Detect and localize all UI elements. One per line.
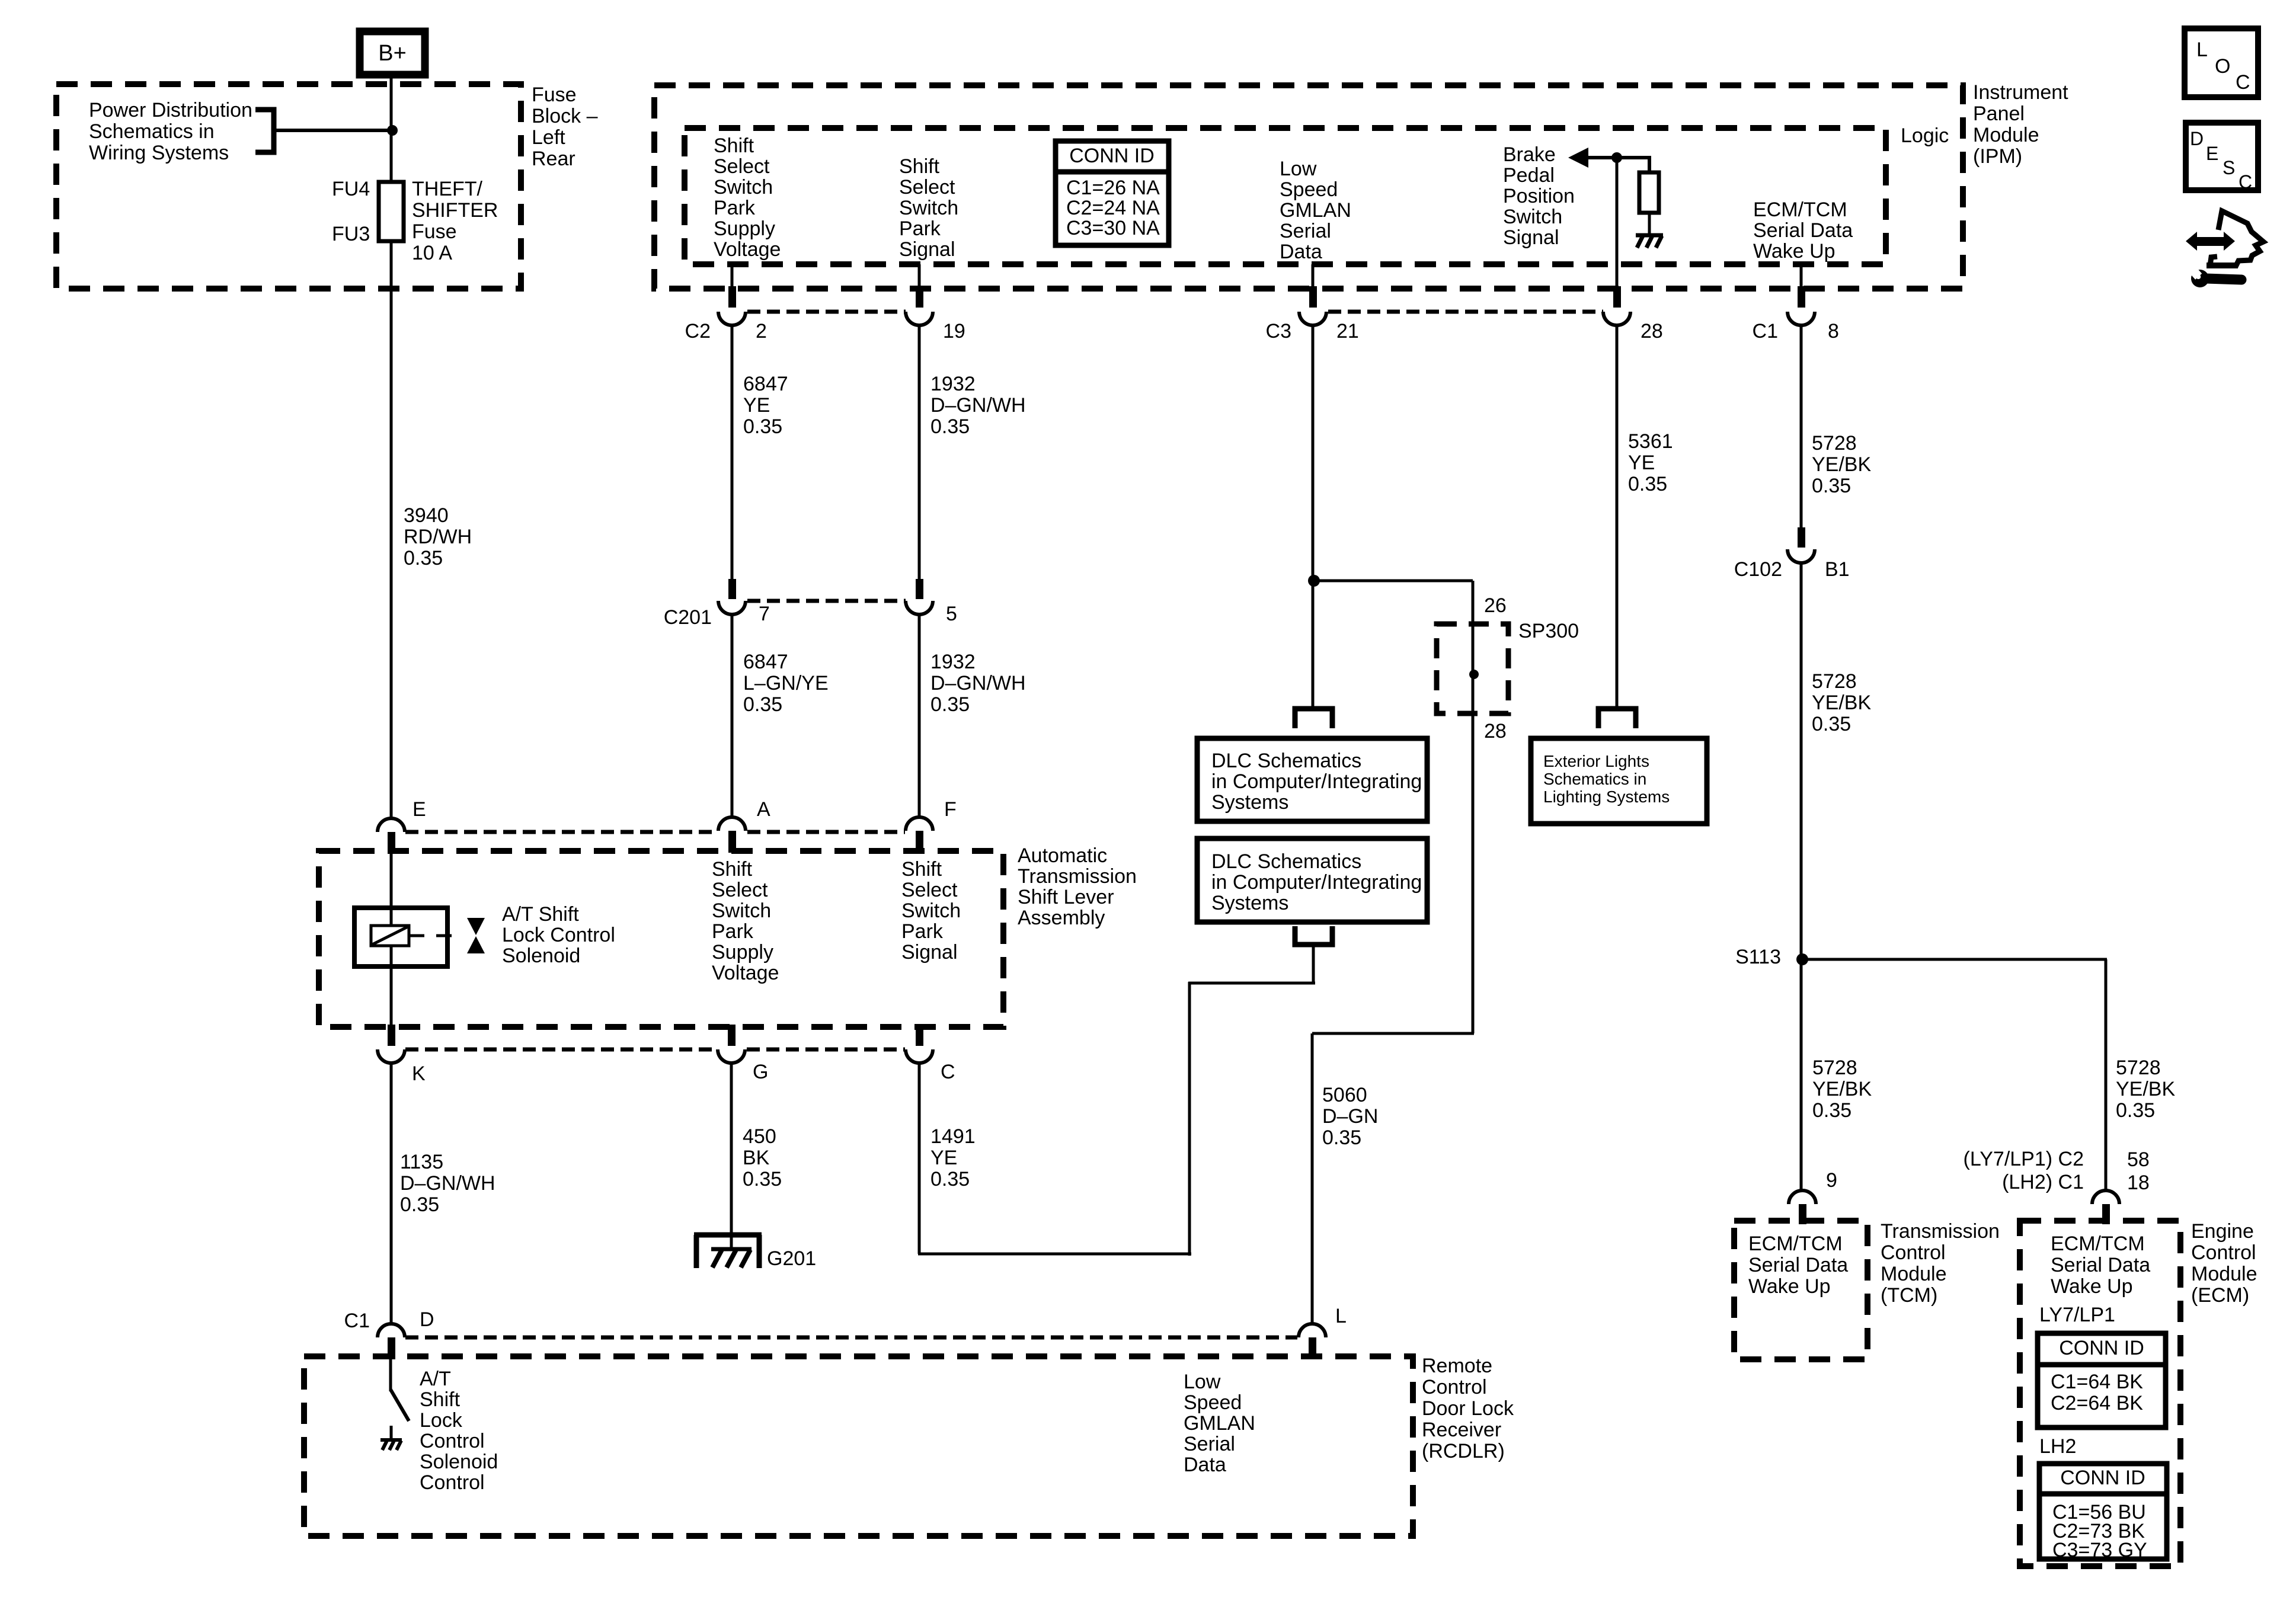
svg-text:C1=56 BUC2=73 BKC3=73 GY: C1=56 BUC2=73 BKC3=73 GY xyxy=(2052,1501,2147,1561)
svg-text:6847YE0.35: 6847YE0.35 xyxy=(743,373,788,438)
connector TCM pin 9 xyxy=(1789,1190,1816,1204)
wire 1932 D-GN/WH upper xyxy=(918,325,921,580)
svg-text:C201: C201 xyxy=(664,606,712,629)
svg-text:G201: G201 xyxy=(767,1247,816,1270)
svg-text:LH2: LH2 xyxy=(2039,1435,2076,1458)
wire 5361 YE from pin 28 xyxy=(1616,325,1619,708)
wire 5060 through SP300 xyxy=(1472,581,1475,1033)
icon data exchange arrow xyxy=(2186,232,2235,251)
svg-text:3940RD/WH0.35: 3940RD/WH0.35 xyxy=(404,504,472,569)
svg-text:InstrumentPanelModule(IPM): InstrumentPanelModule(IPM) xyxy=(1973,81,2068,168)
svg-text:5: 5 xyxy=(946,603,957,625)
svg-text:450BK0.35: 450BK0.35 xyxy=(743,1125,782,1190)
valve symbol of solenoid xyxy=(467,918,485,935)
resistor brake signal pull-up xyxy=(1639,172,1659,213)
wire branch to SP300 xyxy=(1314,580,1473,582)
svg-text:6847L–GN/YE0.35: 6847L–GN/YE0.35 xyxy=(743,651,829,716)
svg-text:A: A xyxy=(757,798,770,821)
wire 1491 YE stub to bracket xyxy=(1312,946,1315,984)
reference box DLC schematics 1 xyxy=(1197,738,1427,821)
svg-text:C2: C2 xyxy=(685,320,711,343)
svg-text:L: L xyxy=(1335,1305,1347,1327)
svg-text:SP300: SP300 xyxy=(1518,620,1579,642)
svg-text:K: K xyxy=(412,1062,426,1085)
svg-text:5728YE/BK0.35: 5728YE/BK0.35 xyxy=(2116,1057,2175,1122)
wire 1135 D-GN/WH xyxy=(390,1063,393,1324)
connector pin E xyxy=(378,818,405,832)
RCDLR connector dashed line D-L xyxy=(405,1336,1297,1340)
connector C1 pin 8 xyxy=(1798,286,1805,308)
wire pin 8 stub xyxy=(1800,264,1803,289)
wire 450 BK xyxy=(730,1063,733,1250)
splice S113 xyxy=(1796,953,1808,965)
connector pin K xyxy=(388,1025,395,1046)
wire switch to internal ground xyxy=(390,1426,393,1439)
svg-text:C1: C1 xyxy=(344,1310,370,1332)
node inside SP300 xyxy=(1469,670,1479,679)
wire pin 2 stub xyxy=(731,264,734,289)
svg-text:(LY7/LP1) C2(LH2) C1: (LY7/LP1) C2(LH2) C1 xyxy=(1964,1148,2084,1193)
svg-text:1491YE0.35: 1491YE0.35 xyxy=(930,1125,976,1190)
wire 5728 YE/BK middle xyxy=(1800,563,1803,1190)
connector C201 dashed line xyxy=(747,599,906,603)
svg-text:C: C xyxy=(941,1061,955,1083)
wire resistor to ground xyxy=(1648,213,1651,234)
svg-text:8: 8 xyxy=(1828,320,1839,343)
transmission control module dashed box xyxy=(1734,1221,1868,1359)
ground internal IPM xyxy=(1636,233,1663,238)
svg-text:ShiftSelectSwitchParkSignal: ShiftSelectSwitchParkSignal xyxy=(901,858,961,964)
svg-text:LowSpeedGMLANSerialData: LowSpeedGMLANSerialData xyxy=(1184,1371,1255,1476)
connector pin A xyxy=(718,817,746,831)
IPM logic inner dashed box xyxy=(685,128,1886,264)
svg-text:ShiftSelectSwitchParkSignal: ShiftSelectSwitchParkSignal xyxy=(899,155,958,261)
ground G201 xyxy=(694,1233,762,1238)
svg-text:9: 9 xyxy=(1826,1169,1837,1192)
svg-text:CONN ID: CONN ID xyxy=(2060,1467,2145,1489)
svg-text:FuseBlock –LeftRear: FuseBlock –LeftRear xyxy=(532,84,598,170)
svg-text:S113: S113 xyxy=(1735,946,1781,968)
svg-text:DLC Schematicsin Computer/Inte: DLC Schematicsin Computer/IntegratingSys… xyxy=(1211,750,1422,814)
bracket for power distribution reference xyxy=(255,110,274,152)
wire 1491 YE to DLC bracket xyxy=(1188,982,1315,985)
wire pin 19 stub xyxy=(918,264,921,289)
svg-text:EngineControlModule(ECM): EngineControlModule(ECM) xyxy=(2191,1220,2257,1307)
svg-text:5728YE/BK0.35: 5728YE/BK0.35 xyxy=(1812,670,1871,735)
CONN ID table LH2 xyxy=(2039,1464,2167,1559)
svg-text:5728YE/BK0.35: 5728YE/BK0.35 xyxy=(1812,432,1871,497)
svg-text:28: 28 xyxy=(1484,720,1507,742)
svg-text:C1=64 BKC2=64 BK: C1=64 BKC2=64 BK xyxy=(2051,1371,2143,1414)
bracket to exterior lights box xyxy=(1598,709,1636,728)
svg-text:O: O xyxy=(2215,55,2230,78)
svg-text:2: 2 xyxy=(756,320,767,343)
wire 6847 YE xyxy=(731,325,734,580)
svg-text:A/TShiftLockControlSolenoidCon: A/TShiftLockControlSolenoidControl xyxy=(420,1368,498,1494)
svg-text:ECM/TCMSerial DataWake Up: ECM/TCMSerial DataWake Up xyxy=(1748,1233,1848,1298)
fuse block - left rear dashed box xyxy=(56,84,521,289)
svg-text:5361YE0.35: 5361YE0.35 xyxy=(1628,430,1673,495)
battery B+ terminal box xyxy=(360,31,425,75)
connector C102 pin B1 xyxy=(1798,527,1805,548)
wire 6847 L-GN/YE xyxy=(731,614,734,817)
CONN ID table LY7/LP1 xyxy=(2038,1333,2166,1427)
svg-text:ECM/TCMSerial DataWake Up: ECM/TCMSerial DataWake Up xyxy=(2051,1233,2150,1298)
svg-text:CONN ID: CONN ID xyxy=(2059,1337,2144,1359)
connector pin G xyxy=(728,1025,736,1046)
svg-text:C: C xyxy=(2239,171,2252,193)
splice pack SP300 dashed box xyxy=(1437,624,1508,713)
ground internal RCDLR xyxy=(380,1438,402,1442)
svg-text:C3: C3 xyxy=(1266,320,1291,343)
connector pin F xyxy=(906,817,933,831)
connector C3 pin 28 xyxy=(1613,286,1621,308)
icon DESC box xyxy=(2186,123,2258,190)
bracket to DLC schematics box 1 xyxy=(1295,709,1332,728)
svg-text:FU3: FU3 xyxy=(332,223,370,245)
wire 1932 D-GN/WH lower xyxy=(918,614,921,817)
wire 1491 YE up xyxy=(1188,982,1191,1256)
svg-text:G: G xyxy=(753,1061,768,1083)
connector C201 pin 7 xyxy=(728,579,736,599)
icon LOC box xyxy=(2185,28,2258,97)
shifter lower connector dashed line K-G xyxy=(405,1048,717,1052)
wire B+ to fuse xyxy=(390,73,393,183)
wire 5060 D-GN from pin 21 xyxy=(1312,325,1315,708)
svg-text:L: L xyxy=(2196,39,2208,61)
connector C2 dashed line xyxy=(747,310,906,314)
wire brake signal internal xyxy=(1586,156,1651,159)
wire to pull-up resistor xyxy=(1648,158,1651,174)
node splice to SP300 xyxy=(1308,575,1320,587)
wire pin 21 stub xyxy=(1312,264,1315,289)
fuse THEFT/SHIFTER 10A xyxy=(379,182,404,241)
svg-text:FU4: FU4 xyxy=(332,178,370,200)
svg-text:A/T ShiftLock ControlSolenoid: A/T ShiftLock ControlSolenoid xyxy=(502,903,615,967)
bracket below DLC schematics box 2 xyxy=(1295,926,1332,945)
svg-text:AutomaticTransmissionShift Lev: AutomaticTransmissionShift LeverAssembly xyxy=(1018,844,1137,929)
svg-text:7: 7 xyxy=(759,603,770,625)
svg-text:E: E xyxy=(2206,143,2218,164)
svg-text:S: S xyxy=(2223,157,2235,178)
wire brake signal to pin 28 xyxy=(1616,158,1619,290)
wire 5728 YE/BK upper xyxy=(1800,325,1803,529)
svg-text:5728YE/BK0.35: 5728YE/BK0.35 xyxy=(1812,1057,1872,1122)
svg-text:5060D–GN0.35: 5060D–GN0.35 xyxy=(1322,1084,1378,1149)
svg-text:Logic: Logic xyxy=(1901,124,1949,147)
svg-text:C: C xyxy=(2236,71,2250,94)
svg-text:CONN ID: CONN ID xyxy=(1069,145,1155,167)
svg-text:21: 21 xyxy=(1336,320,1359,343)
engine control module dashed box xyxy=(2020,1221,2180,1566)
svg-text:DLC Schematicsin Computer/Inte: DLC Schematicsin Computer/IntegratingSys… xyxy=(1211,850,1422,914)
wire 5060 D-GN down to L xyxy=(1311,1033,1314,1324)
connector C3 dashed line xyxy=(1328,310,1603,314)
icon wrench xyxy=(2183,261,2212,292)
reference box exterior lights schematics xyxy=(1531,738,1707,824)
wire power distribution branch xyxy=(274,129,391,132)
svg-text:19: 19 xyxy=(943,320,965,343)
connector C3 pin 21 xyxy=(1309,286,1317,308)
svg-text:28: 28 xyxy=(1641,320,1663,343)
wire S113 branch horizontal xyxy=(1802,958,2107,961)
connector pin L xyxy=(1299,1324,1326,1337)
svg-text:26: 26 xyxy=(1484,594,1507,617)
svg-text:ShiftSelectSwitchParkSupplyVol: ShiftSelectSwitchParkSupplyVoltage xyxy=(714,135,781,261)
reference box DLC schematics 2 xyxy=(1197,838,1427,922)
svg-text:1932D–GN/WH0.35: 1932D–GN/WH0.35 xyxy=(930,651,1026,716)
wire 1491 YE horizontal xyxy=(918,1253,1191,1256)
svg-text:TransmissionControlModule(TCM): TransmissionControlModule(TCM) xyxy=(1881,1220,2000,1307)
svg-text:C1=26 NAC2=24 NAC3=30 NA: C1=26 NAC2=24 NAC3=30 NA xyxy=(1066,177,1160,239)
svg-text:1932D–GN/WH0.35: 1932D–GN/WH0.35 xyxy=(930,373,1026,438)
switch solenoid driver xyxy=(391,1390,409,1421)
wire 5060 horizontal to RCDLR xyxy=(1312,1032,1474,1035)
wire through shift lock solenoid xyxy=(390,854,393,1032)
svg-text:BrakePedalPositionSwitchSignal: BrakePedalPositionSwitchSignal xyxy=(1503,143,1575,249)
svg-text:ShiftSelectSwitchParkSupplyVol: ShiftSelectSwitchParkSupplyVoltage xyxy=(712,858,779,984)
shifter connector dashed line E-A xyxy=(405,830,717,834)
wire 5728 YE/BK to ECM xyxy=(2105,959,2108,1190)
wire 3940 RD/WH fuse to shifter E xyxy=(390,241,393,818)
svg-text:E: E xyxy=(412,798,426,821)
shifter connector dashed line A-F xyxy=(747,830,905,834)
CONN ID table for IPM xyxy=(1056,141,1169,245)
connector C2 pin 2 xyxy=(728,286,736,308)
node junction at B+ feed xyxy=(387,125,398,136)
remote control door lock receiver dashed box xyxy=(304,1356,1413,1536)
svg-text:C102: C102 xyxy=(1734,558,1782,581)
connector C1 pin D xyxy=(378,1324,405,1337)
svg-text:RemoteControlDoor LockReceiver: RemoteControlDoor LockReceiver(RCDLR) xyxy=(1422,1355,1514,1462)
svg-text:LowSpeedGMLANSerialData: LowSpeedGMLANSerialData xyxy=(1280,158,1351,263)
svg-text:D: D xyxy=(2190,128,2204,149)
svg-text:LY7/LP1: LY7/LP1 xyxy=(2039,1304,2115,1326)
svg-text:D: D xyxy=(420,1308,434,1331)
svg-text:C1: C1 xyxy=(1753,320,1778,343)
connector pin C xyxy=(916,1025,923,1046)
svg-text:Exterior LightsSchematics inLi: Exterior LightsSchematics inLighting Sys… xyxy=(1543,752,1670,806)
svg-text:B+: B+ xyxy=(378,41,407,66)
node brake signal junction xyxy=(1611,152,1622,163)
shifter lower connector dashed line G-C xyxy=(747,1048,905,1052)
connector ECM pin 58/18 xyxy=(2092,1190,2119,1204)
connector C2 pin 19 xyxy=(916,286,923,308)
svg-text:Power DistributionSchematics i: Power DistributionSchematics inWiring Sy… xyxy=(89,99,252,164)
svg-text:F: F xyxy=(944,798,957,821)
svg-text:THEFT/SHIFTERFuse10 A: THEFT/SHIFTERFuse10 A xyxy=(412,178,498,264)
arrow brake pedal position signal xyxy=(1568,148,1588,168)
connector C201 pin 5 xyxy=(916,579,923,599)
svg-text:5818: 5818 xyxy=(2127,1148,2150,1194)
svg-text:B1: B1 xyxy=(1825,558,1850,581)
wire solenoid control internal xyxy=(389,1359,392,1391)
instrument panel module IPM dashed box xyxy=(654,85,1963,289)
solenoid A/T shift lock control xyxy=(354,908,447,966)
wire 1491 YE vertical xyxy=(918,1063,921,1254)
svg-text:1135D–GN/WH0.35: 1135D–GN/WH0.35 xyxy=(400,1151,495,1216)
icon module outline xyxy=(2210,211,2263,265)
svg-text:ECM/TCMSerial DataWake Up: ECM/TCMSerial DataWake Up xyxy=(1753,199,1853,263)
automatic transmission shift lever assembly dashed box xyxy=(319,851,1003,1027)
